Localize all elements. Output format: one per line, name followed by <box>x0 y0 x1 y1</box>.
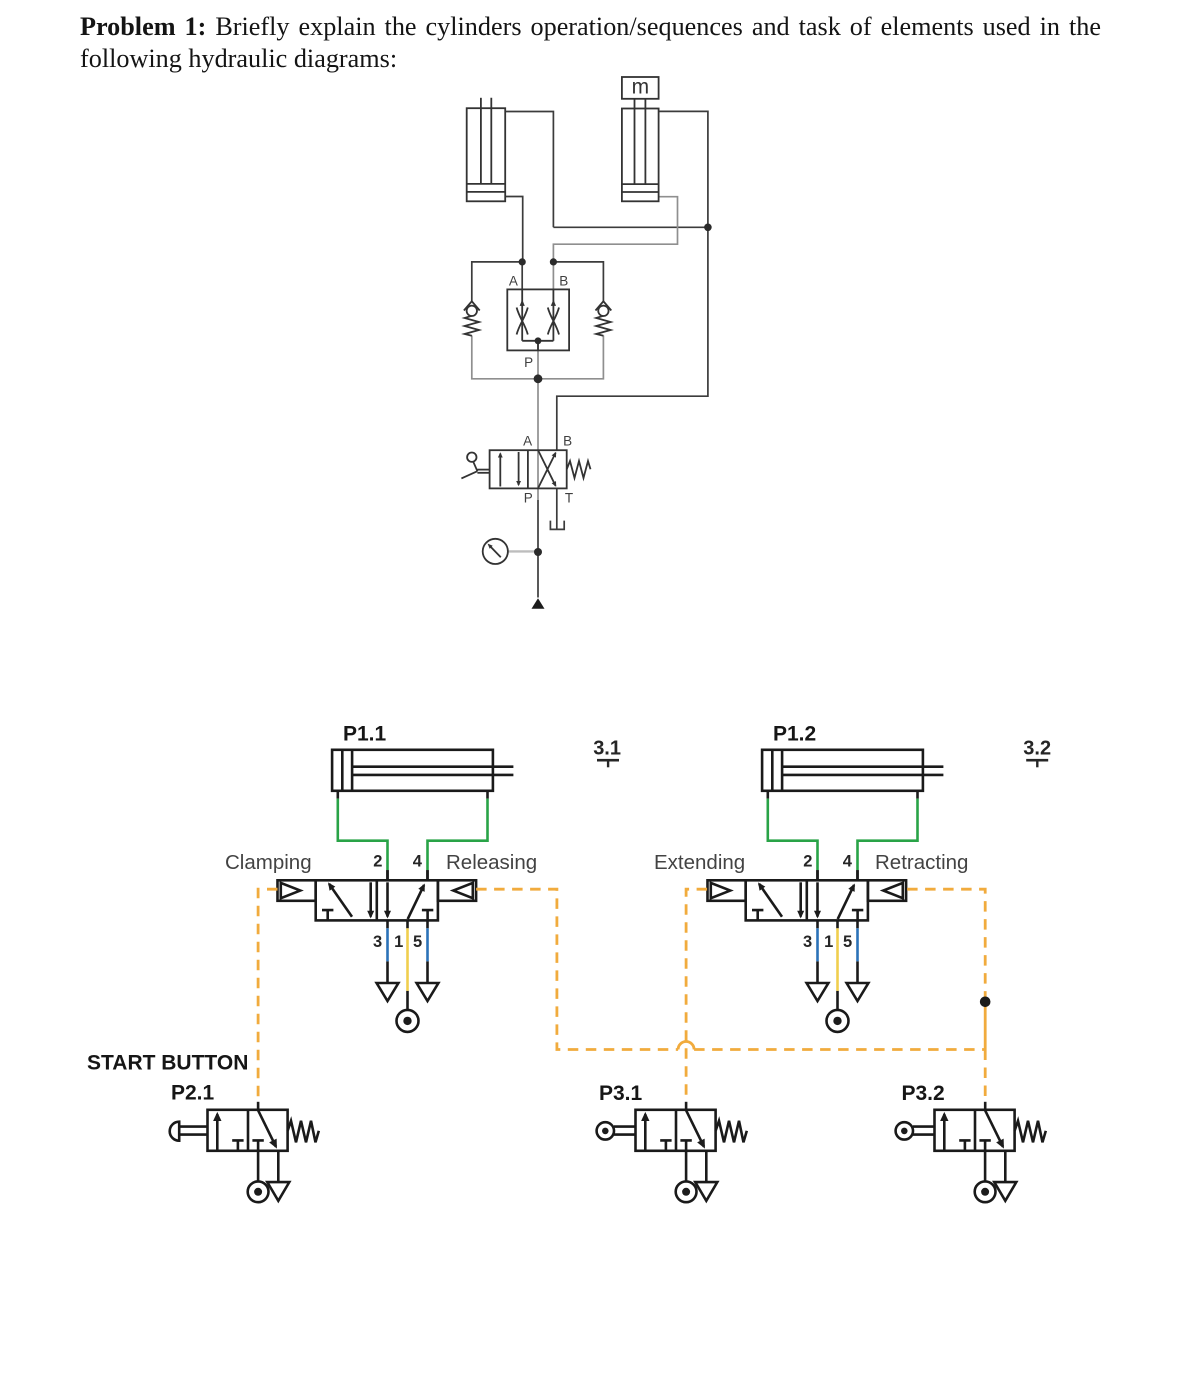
mass m on cylinder 2 <box>622 76 659 99</box>
pilot line: V1 right pilot to signal bus (dashed) <box>476 889 678 1049</box>
wire: node B to right check valve <box>553 262 603 301</box>
port labels A B P T (4/2 valve) <box>523 433 573 505</box>
pressure source <box>532 598 545 609</box>
junction node B <box>550 258 557 265</box>
valve P2.1 (3/2 push-button) <box>208 1110 319 1202</box>
crossing hop <box>678 1042 694 1050</box>
wire: P1.1 rod end to valve V1 port 4 <box>428 791 488 881</box>
actuator head (P3.2) <box>896 1122 935 1139</box>
wire: right cylinder cap-side port to node B <box>553 197 677 262</box>
wire: node A to left check valve <box>472 262 522 301</box>
cylinder P1.2 <box>762 750 943 791</box>
svg-text:Extending: Extending <box>654 851 745 874</box>
label 3.1 <box>593 738 621 768</box>
wire: node B to flow-control port B <box>552 262 554 290</box>
svg-text:P3.2: P3.2 <box>902 1082 945 1105</box>
valve P3.2 (3/2 pilot) <box>935 1110 1046 1202</box>
wire: rod-side header line <box>553 226 708 228</box>
svg-text:Retracting: Retracting <box>875 851 968 874</box>
svg-text:P: P <box>524 355 533 370</box>
svg-text:B: B <box>559 273 568 288</box>
actuator head (P3.1) <box>597 1122 636 1139</box>
push button actuator (P2.1) <box>170 1122 208 1141</box>
wire: left cylinder rod-side port to header <box>505 112 553 228</box>
wire: left check valve to node P <box>472 336 538 379</box>
cylinder 1 (left, vertical) <box>467 98 506 201</box>
label 3.2 <box>1023 738 1051 768</box>
svg-text:P: P <box>524 491 533 506</box>
svg-text:P1.1: P1.1 <box>343 723 387 746</box>
cylinder P1.1 <box>332 750 513 791</box>
wire: gauge link <box>508 550 538 552</box>
wire: flow-control port P down through valve <box>537 341 539 500</box>
svg-text:Clamping: Clamping <box>225 851 312 874</box>
svg-text:Releasing: Releasing <box>446 851 537 874</box>
junction node P <box>534 374 543 383</box>
svg-text:T: T <box>565 491 573 506</box>
wire: right check valve to node P <box>538 336 603 379</box>
junction: gauge tap node <box>534 548 542 556</box>
svg-text:3.1: 3.1 <box>593 738 621 760</box>
junction: rod-side header node <box>704 224 712 232</box>
check valve with spring (left) <box>464 301 480 336</box>
return spring (4/2 valve) <box>567 461 591 478</box>
pressure gauge <box>483 539 508 564</box>
5/2 directional valve V1 <box>278 853 477 1032</box>
svg-text:3.2: 3.2 <box>1023 738 1051 760</box>
svg-text:P2.1: P2.1 <box>171 1082 215 1105</box>
svg-text:P3.1: P3.1 <box>599 1082 643 1105</box>
tank <box>550 521 564 530</box>
svg-text:A: A <box>509 273 518 288</box>
junction node A <box>519 258 526 265</box>
wire: valve port T down to tank <box>556 488 558 528</box>
wire: P1.1 cap end to valve V1 port 2 <box>338 791 388 881</box>
svg-text:A: A <box>523 433 532 448</box>
cylinder 2 (right, vertical, loaded) <box>622 99 659 202</box>
valve P3.1 (3/2 pilot) <box>636 1110 747 1202</box>
junction: pilot bus node <box>980 997 991 1008</box>
wire: valve port P to gauge node and pump <box>537 500 539 598</box>
wire: header node down to valve port B <box>557 227 708 450</box>
pilot line: P3.1 output to V2 left pilot (dashed) <box>686 889 707 1110</box>
wire: P1.2 cap end to valve V2 port 2 <box>768 791 818 881</box>
flow control valve block (twin throttles) <box>507 289 569 350</box>
pilot line: P2.1 output to V1 left pilot (dashed) <box>258 889 277 1110</box>
lever actuator <box>461 453 489 479</box>
4/2 directional valve U1 <box>490 450 567 488</box>
svg-text:m: m <box>632 76 650 99</box>
junction: flow-control internal node <box>535 337 542 344</box>
5/2 directional valve V2 <box>708 853 907 1032</box>
wire: P1.2 rod end to valve V2 port 4 <box>858 791 918 881</box>
check valve with spring (right) <box>596 301 612 336</box>
svg-text:START BUTTON: START BUTTON <box>87 1052 248 1075</box>
pilot line: V2 right pilot to P3.2 output (dashed) <box>907 889 985 1110</box>
wire: right cylinder rod-side port down to header node <box>659 111 708 227</box>
wire: node A to flow-control port A <box>521 262 523 290</box>
pilot line: signal bus to junction (dashed) <box>694 1048 985 1051</box>
svg-text:B: B <box>563 433 572 448</box>
svg-text:P1.2: P1.2 <box>773 723 816 746</box>
wire: left cylinder cap-side port to node A <box>505 197 523 262</box>
